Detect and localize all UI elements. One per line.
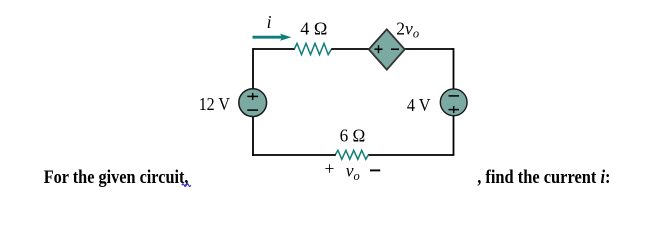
wire left vertical segment — [252, 48, 254, 156]
spellcheck squiggle under comma — [182, 184, 191, 187]
label vo voltage — [346, 161, 360, 183]
label i current — [267, 12, 272, 32]
resistor R2 6ohm zigzag — [335, 150, 368, 159]
V1 plus sign — [247, 93, 258, 100]
label 12 V — [199, 94, 231, 114]
dependent source D1 diamond 2vo — [369, 29, 405, 69]
svg-text:4 Ω: 4 Ω — [300, 19, 327, 39]
label 6 ohm — [340, 126, 366, 146]
voltage source V1 12V circle — [239, 89, 267, 117]
V2 plus sign — [449, 106, 460, 113]
wire right vertical segment — [453, 48, 455, 155]
svg-text:12 V: 12 V — [199, 94, 231, 114]
svg-text:+: + — [325, 158, 335, 178]
wire bottom-left segment — [252, 154, 336, 156]
svg-text:4 V: 4 V — [407, 95, 431, 115]
label plus vo polarity — [325, 158, 335, 178]
voltage source V2 4V circle — [440, 89, 467, 116]
V1 minus sign — [247, 109, 258, 111]
svg-text:2vo: 2vo — [396, 19, 419, 41]
label 4 ohm — [300, 19, 327, 39]
wire top-middle segment — [331, 48, 453, 50]
label 2vo — [396, 19, 419, 41]
resistor R1 4ohm zigzag — [294, 43, 331, 54]
D1 plus sign — [375, 45, 383, 53]
label 4 V — [407, 95, 431, 115]
svg-text:For the given circuit,: For the given circuit, — [44, 167, 189, 188]
svg-text:vo: vo — [346, 161, 360, 183]
wire bottom-right segment — [368, 154, 454, 156]
label minus vo polarity — [370, 169, 380, 171]
current arrow i — [253, 34, 292, 41]
wire top-left segment — [253, 48, 295, 50]
svg-text:, find the current i:: , find the current i: — [477, 167, 610, 188]
caption left: For the given circuit, — [44, 167, 189, 188]
caption right: find the current i: — [477, 167, 610, 188]
V2 minus sign — [449, 95, 460, 97]
svg-text:i: i — [267, 12, 272, 32]
D1 minus sign — [391, 48, 399, 50]
svg-text:6 Ω: 6 Ω — [340, 126, 366, 146]
